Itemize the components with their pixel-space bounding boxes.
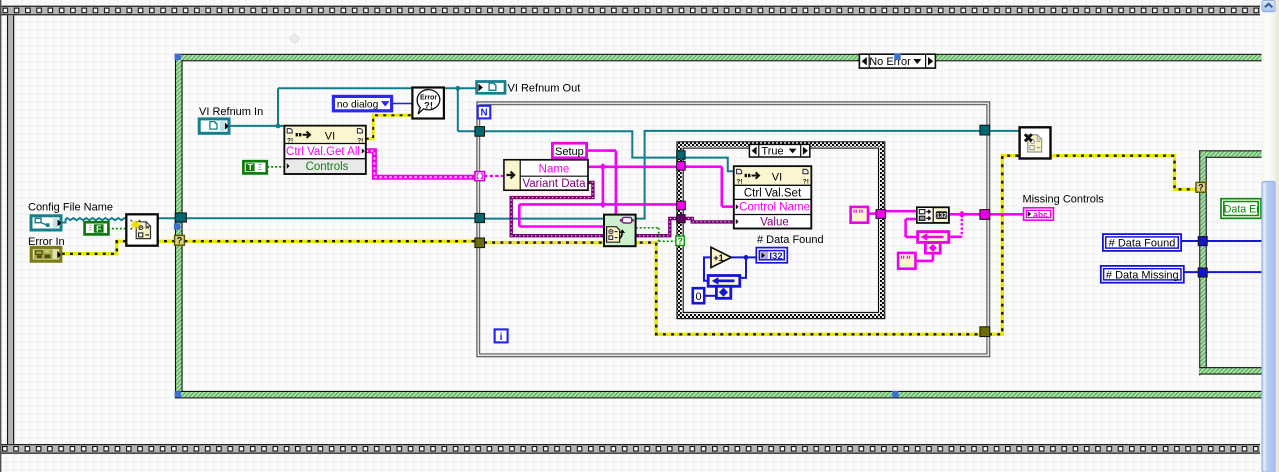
svg-text:Control Name: Control Name [739,202,810,214]
local variable # Data Found [1103,234,1181,251]
wire: Name branch down-left into Variant-To-Data [518,204,521,226]
tunnel: # Data Found into structure 2 [1198,237,1207,246]
wire: config refnum teal inside For loop behind Variant-To-Data icon, up and right to exit tunnel and Close Config icon [484,131,1021,219]
wire: variant continued behind icon to True case Value tunnel [635,219,678,236]
string constant empty 2 [898,253,915,269]
error case structure "No Error" bottom border [175,391,1262,399]
indicator VI Refnum Out [477,82,505,94]
selection handles (blue) of No-Error case [175,54,181,60]
error case structure "No Error" left border [175,54,183,399]
svg-text:?!: ?! [357,138,363,145]
svg-text:VI Refnum In: VI Refnum In [199,106,263,118]
svg-text:?: ? [177,236,183,246]
svg-text:?!: ?! [803,179,809,186]
node General Error Handler (Error?!) [412,88,444,119]
boolean constant F (create file?) [85,222,109,234]
svg-text:132: 132 [936,213,947,220]
case tunnel: VI refnum [677,151,685,159]
ring constant "no dialog" [333,96,391,110]
wire: error cluster outside For loop: up right side, behind Close Config icon, to second case selector [989,156,1196,335]
For loop iteration terminal i [495,329,508,343]
svg-text:Ctrl Val.Set: Ctrl Val.Set [744,187,802,199]
scrollbar track [1262,0,1276,472]
svg-text:no dialog: no dialog [337,100,379,111]
svg-text:Variant Data: Variant Data [522,178,586,190]
case tunnel: variant value [677,215,685,223]
wire: select node output right to For loop tunnel, branch down to feedback input [949,213,981,216]
property node U2: VI / Ctrl Val.Set / Control Name / Value [734,166,812,228]
wire: error cluster from Ctrl Val.Get All node up to General Error Handler [366,115,413,139]
wire: VI refnum from VI Refnum In control, branching to VI Refnum Out and property node [230,125,285,127]
wire: missing-name from case tunnel to select node top input [886,210,917,213]
node Close Config Data (VI icon) [1020,127,1051,158]
selector terminal ? of No-Error case (error) [175,235,185,245]
numeric constant 0 [693,288,704,303]
svg-text:?: ? [1198,183,1204,193]
wire: array of controls (hatched) from Ctrl Val.Get All to For loop indexing tunnel [366,151,476,177]
svg-text:Setup: Setup [555,146,584,158]
flat sequence structure bottom border (film strip) [0,444,1260,454]
wire: error cluster from No-Error case selector to For loop left tunnel [185,239,477,242]
For loop tunnel: config refnum in [475,213,485,222]
wire: no dialog ring to General Error Handler [393,103,413,105]
wire: # Data Found local into second structure [1181,240,1261,242]
control VI Refnum In [199,119,229,133]
control Error In (error cluster) [31,247,61,261]
svg-text:# Data Found: # Data Found [757,234,824,246]
error case structure 2 bottom border [1199,367,1261,375]
wire: config refnum teal through No-Error-case left tunnel to For loop [158,217,477,219]
svg-text:Controls: Controls [306,161,349,173]
string constant empty 1 [851,207,868,223]
For loop tunnel: config refnum out [980,125,990,135]
svg-text:i: i [500,331,503,343]
svg-text:Config File Name: Config File Name [28,202,113,214]
svg-text:?!: ?! [287,138,293,145]
wire: variant data from GetValueByName around to Variant-To-Data input [511,182,604,235]
For loop tunnel: error out [980,327,990,337]
case tunnel: missing-name out (right) [876,210,885,219]
svg-text:True: True [761,146,783,158]
wire: VI refnum inside For loop to True case tunnel [484,131,678,157]
wire: empty string constant 2 to feedback initializer [916,260,933,263]
tunnel: # Data Missing into structure 2 [1198,268,1207,277]
scrollbar thumb [1262,181,1275,472]
svg-text:VI: VI [772,171,782,183]
node increment +1 [711,247,731,267]
svg-text:0: 0 [695,291,701,303]
For loop border [477,102,990,357]
wire: # Data Missing local into second structure [1184,271,1262,273]
junction: VI refnum branch down into For loop [457,88,459,131]
wire: boolean found? from Variant-To-Data to True case selector [636,227,660,229]
For loop tunnel: auto-indexing [] [475,172,485,181]
wire: control name inside True case to Ctrl Val.Set Control Name input [684,165,722,168]
case selector terminal ? (boolean) [676,236,684,246]
wire: error cluster from Error In control to Open Config Data icon [62,241,175,254]
grid origin diamond marker [290,34,300,44]
feedback node (string) [918,232,949,254]
wire: error cluster inside For loop: across, down, along bottom to right tunnel [484,243,981,335]
indicator I32 # Data Found [756,248,787,263]
window edge right [1276,0,1279,472]
tunnel: config refnum through No-Error case left border [175,213,186,222]
svg-text:abc: abc [1033,209,1048,219]
wire: Setup string constant down into Variant-To-Data type input [587,149,616,152]
svg-text:?!: ?! [424,100,433,111]
scrollbar up button [1262,0,1275,11]
svg-text:T: T [248,162,254,172]
error case structure 2 left border [1199,150,1207,375]
For loop tunnel: VI refnum in [475,127,485,137]
svg-text:Missing Controls: Missing Controls [1023,194,1105,206]
svg-text:VI: VI [325,130,335,142]
wire: boolean F constant to Open Config Data [108,228,127,230]
property node U1: VI / Ctrl Val.Get All / Controls [284,126,365,174]
left pane edge [0,0,1,472]
For loop tunnel: error in [475,238,485,248]
case tunnel: control name (top) [677,161,685,170]
wire: config refnum path from Config File Name control to Open Config Data icon [62,218,127,223]
For loop tunnel: missing controls string out [980,210,990,220]
svg-text:+1: +1 [713,253,723,263]
wire: pink feedback node output up to select node bottom input [904,219,907,237]
wire: empty string constant to True case right tunnel [868,212,877,215]
flat sequence structure left border [7,15,14,444]
case label No Error [859,54,935,68]
svg-text:# Data Missing: # Data Missing [1106,269,1179,281]
error case structure "No Error" top border [175,54,1262,62]
node Variant To Data [604,215,636,247]
wire: missing controls string out of For loop to abc indicator [989,213,1024,216]
wire: variant inside True case to Ctrl Val.Set Value input [684,219,736,222]
svg-text:VI Refnum Out: VI Refnum Out [508,82,581,94]
node Get Variant Attribute: Name / Variant Data [504,160,588,190]
local variable Data Err [1221,199,1264,219]
wire: Name branch to True case tunnel 2 [519,203,678,206]
svg-text:?!: ?! [736,179,742,186]
indicator Missing Controls (abc string) [1024,208,1054,220]
svg-text:Name: Name [539,164,570,176]
svg-text:Data Err: Data Err [1224,203,1264,215]
wire: boolean T constant to Controls property input [267,166,284,168]
svg-text:F: F [96,223,101,233]
junction diamonds on Name wire [599,163,606,170]
svg-text:N: N [480,108,487,119]
svg-text:Value: Value [760,216,789,228]
For loop count terminal N [478,106,491,119]
case label True [749,144,809,157]
selector terminal ? of second error case [1196,182,1206,192]
string constant Setup [552,143,586,158]
boolean constant T (include hidden?) [243,161,266,173]
wire: indexed element (dashed) from tunnel to GetValueByName node [484,175,505,177]
node Open Config Data (VI icon) [126,214,157,245]
flat sequence structure top border (film strip) [0,6,1260,16]
wire: +1 increment loop with feedback node and I32 indicator [731,256,756,258]
svg-text:Ctrl Val.Get All: Ctrl Val.Get All [286,146,360,158]
case tunnel: control name (unused) [677,201,686,210]
wire: VI refnum inside True case to Ctrl Val.Set node [684,158,734,172]
local variable # Data Missing [1101,266,1184,283]
svg-text:?: ? [677,236,683,246]
wire: Name output to True case tunnel 1 [588,166,678,169]
svg-text:No Error: No Error [869,56,911,68]
svg-text:# Data Found: # Data Found [1109,238,1176,250]
feedback node (numeric) [708,276,740,299]
node select (empty/name) [917,207,949,223]
wire: Name branch down [602,167,605,205]
control Config File Name (path) [31,216,61,230]
case structure True border [677,142,885,319]
error case structure 2 top border [1199,150,1261,158]
svg-text:I32: I32 [769,251,782,262]
